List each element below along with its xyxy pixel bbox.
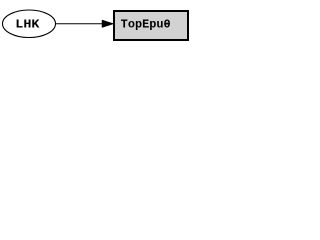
- svg-text:TopEpu0: TopEpu0: [121, 17, 171, 31]
- svg-text:LHK: LHK: [15, 17, 40, 31]
- node LHK ellipse: [3, 10, 56, 38]
- background: [0, 0, 194, 48]
- arrowhead: [102, 20, 114, 28]
- node TopEpu0 box: [114, 11, 188, 40]
- slashed-zero bar: [164, 23, 169, 24]
- wire edge LHK to TopEpu0: [56, 23, 103, 25]
